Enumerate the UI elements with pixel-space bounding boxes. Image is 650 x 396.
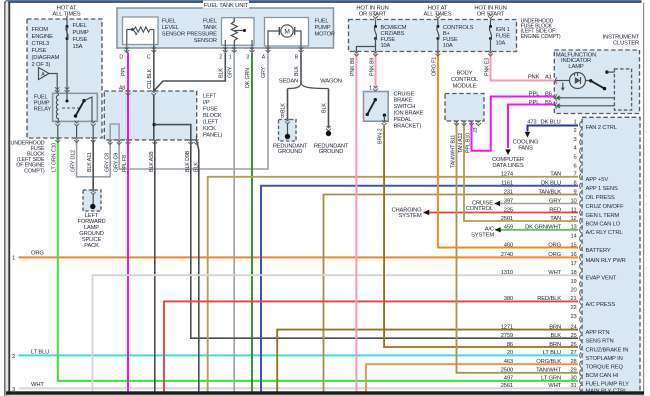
relay dashed link: [62, 107, 79, 109]
wire triangle A to relay coil: [49, 74, 57, 94]
svg-text:LEVEL: LEVEL: [162, 25, 179, 31]
svg-text:BLK: BLK: [219, 68, 225, 78]
svg-text:PNK B6: PNK B6: [350, 58, 356, 76]
svg-text:STOPLAMP IN: STOPLAMP IN: [586, 356, 623, 362]
fuel pump relay box: [53, 93, 98, 121]
svg-text:TAN: TAN: [550, 216, 561, 222]
svg-text:PRESSURE: PRESSURE: [187, 32, 217, 38]
relay switch contact wire: [84, 97, 92, 121]
sedan BLK wire: [287, 89, 289, 120]
fuel tank pressure sensor inner box: [222, 18, 255, 46]
svg-text:BRN: BRN: [549, 342, 561, 348]
svg-text:CONTROL: CONTROL: [466, 206, 494, 212]
svg-text:PUMP: PUMP: [34, 101, 50, 107]
wire PNK E3 to cluster A1: [491, 52, 555, 81]
svg-text:CTRL3: CTRL3: [32, 41, 50, 47]
svg-text:ORG: ORG: [548, 252, 561, 258]
svg-text:WHT: WHT: [31, 382, 44, 388]
cruise switch contacts: [366, 113, 369, 116]
cruise switch pin chevron top: [373, 86, 378, 91]
svg-text:8: 8: [573, 181, 576, 187]
wire BLK relay A11 to ground splice: [92, 140, 94, 191]
relay pin chevrons top: [55, 87, 60, 92]
MIL switch: [589, 79, 592, 82]
wagon BLK wire: [328, 89, 330, 128]
svg-text:86: 86: [507, 342, 513, 348]
PCM connector pins, numbers and labels: [580, 121, 581, 127]
svg-text:1310: 1310: [501, 270, 513, 276]
svg-text:2759: 2759: [501, 333, 513, 339]
wire BRN 1271 pin 24: [277, 330, 578, 392]
svg-text:FUEL: FUEL: [73, 23, 88, 29]
svg-text:463: 463: [504, 359, 513, 365]
svg-text:1274: 1274: [501, 172, 514, 178]
svg-text:PPL: PPL: [121, 66, 127, 76]
svg-text:LT GRN C10: LT GRN C10: [52, 143, 58, 172]
svg-text:15: 15: [570, 242, 576, 248]
svg-text:BCM/ECM: BCM/ECM: [381, 25, 407, 31]
svg-text:PNK E3: PNK E3: [484, 58, 490, 76]
svg-text:FANS: FANS: [518, 145, 533, 151]
svg-text:PNK B9: PNK B9: [369, 58, 375, 76]
label fuel tank unit: [203, 1, 249, 9]
wire TAN 2501 pin 12 from BCM A12: [464, 122, 578, 222]
svg-text:BLK: BLK: [294, 66, 300, 76]
svg-text:397: 397: [504, 198, 513, 204]
svg-text:473: 473: [527, 119, 536, 125]
svg-text:BRN: BRN: [549, 324, 561, 330]
fuel level sensor inner box: [123, 17, 159, 45]
svg-text:B+: B+: [443, 31, 451, 37]
svg-text:2740: 2740: [501, 252, 513, 258]
svg-text:14: 14: [570, 233, 576, 239]
svg-text:MODULE: MODULE: [453, 83, 477, 89]
fuse FUEL PUMP FUSE 15A symbol: [66, 25, 69, 28]
svg-text:C11 BLK: C11 BLK: [147, 68, 153, 89]
svg-text:OR START: OR START: [359, 12, 387, 18]
wire PNK B6 down: [355, 52, 357, 392]
svg-text:TANK: TANK: [203, 25, 218, 31]
svg-text:TAN/BLK: TAN/BLK: [538, 189, 561, 195]
svg-text:INSTRUMENT: INSTRUMENT: [603, 34, 640, 40]
svg-text:10A: 10A: [496, 40, 506, 46]
svg-text:A8: A8: [119, 86, 125, 92]
svg-text:1: 1: [573, 119, 576, 125]
svg-text:31: 31: [570, 383, 576, 389]
wire PPL fuel level sensor D to A8/F8 and down: [127, 53, 129, 392]
svg-text:EVAP VENT: EVAP VENT: [586, 276, 617, 282]
wire DK GRN/WHT 459 pin 13: [495, 229, 578, 231]
svg-text:ALL TIMES: ALL TIMES: [424, 12, 452, 18]
svg-text:1: 1: [12, 255, 15, 261]
svg-text:CRUISE: CRUISE: [394, 91, 415, 97]
body control module dashed box: [445, 94, 484, 122]
svg-text:GRY C9: GRY C9: [113, 153, 119, 172]
svg-text:SENSOR: SENSOR: [162, 32, 185, 38]
svg-text:GRY D12: GRY D12: [70, 150, 76, 172]
svg-text:BLK: BLK: [281, 103, 287, 113]
svg-text:11: 11: [571, 207, 577, 213]
svg-text:5: 5: [573, 155, 576, 161]
svg-text:GROUND: GROUND: [278, 149, 302, 155]
svg-text:APP +5V: APP +5V: [586, 177, 609, 183]
svg-text:9: 9: [573, 189, 576, 195]
svg-text:1: 1: [229, 55, 232, 61]
svg-text:28: 28: [570, 359, 576, 365]
svg-text:FUSE: FUSE: [203, 106, 218, 112]
svg-text:BLK: BLK: [322, 103, 328, 113]
svg-text:C: C: [147, 55, 151, 61]
wire ORG/BLK 463 pin 28: [366, 364, 578, 391]
svg-text:13: 13: [570, 225, 576, 231]
svg-text:SENS RTN: SENS RTN: [586, 339, 614, 345]
svg-text:231: 231: [504, 189, 513, 195]
cluster pin B6 bracket: [555, 94, 556, 100]
svg-text:LT BLU: LT BLU: [31, 349, 49, 355]
fuse branch to pin B6: [356, 44, 375, 52]
svg-text:WHT: WHT: [548, 270, 561, 276]
svg-text:TAN/WHT B11: TAN/WHT B11: [451, 135, 457, 168]
svg-text:SYSTEM: SYSTEM: [399, 213, 422, 219]
left page border lines: [4, 2, 5, 396]
svg-text:6: 6: [573, 163, 576, 169]
svg-text:PANEL): PANEL): [203, 132, 222, 138]
wire WHT 2561 (net 3 to pin 31): [19, 387, 579, 389]
MIL test stub: [562, 83, 564, 89]
wire GRY relay D12 to C8: [77, 140, 111, 177]
instrument cluster inner dashed rect: [614, 69, 631, 110]
svg-text:24: 24: [570, 324, 576, 330]
svg-text:PUMP: PUMP: [315, 25, 331, 31]
wire LT GRN 497 (relay C10 to pin 30): [58, 139, 578, 381]
svg-text:TAN: TAN: [550, 172, 561, 178]
svg-text:460: 460: [504, 242, 513, 248]
svg-text:BLK A11: BLK A11: [87, 152, 93, 172]
svg-text:27: 27: [570, 350, 576, 356]
svg-text:GRY: GRY: [549, 198, 561, 204]
wire RED 225 pin 11: [424, 212, 579, 214]
redundant ground wagon symbol: [326, 126, 331, 131]
bottom cutoff band: [6, 391, 644, 395]
svg-text:26: 26: [570, 342, 576, 348]
svg-text:BCM CAN LO: BCM CAN LO: [586, 221, 621, 227]
svg-text:(LEFT: (LEFT: [203, 119, 219, 125]
relay pin chevrons bottom: [55, 121, 60, 126]
svg-text:BRN: BRN: [377, 133, 383, 144]
fuel level sensor resistor: [127, 29, 133, 31]
fuel pump motor symbol: [281, 25, 293, 37]
svg-text:OIL PRESS: OIL PRESS: [586, 195, 615, 201]
svg-text:2561: 2561: [501, 383, 513, 389]
underhood fuse block (left) dashed box: [27, 19, 102, 138]
arrow cruise control wire 397: [495, 201, 501, 206]
svg-text:FUSE: FUSE: [32, 48, 47, 54]
svg-text:380: 380: [504, 296, 513, 302]
svg-text:RED: RED: [549, 207, 561, 213]
wire TAN 1274 pin 7: [208, 177, 578, 392]
wire TAN/WHT 2500 pin 29 from BCM B11: [457, 122, 579, 373]
svg-text:RED/BLK: RED/BLK: [537, 296, 561, 302]
arrow computer data lines: [505, 149, 510, 155]
svg-text:A/C PRESS: A/C PRESS: [586, 302, 616, 308]
svg-text:BLOCK: BLOCK: [203, 113, 222, 119]
wire BRN 86 pin 26 from cruise switch: [384, 126, 578, 347]
svg-text:PUMP: PUMP: [73, 30, 89, 36]
svg-text:LT BLU: LT BLU: [543, 350, 561, 356]
wire ORG 2740 (net 1 to pin 16): [19, 256, 579, 258]
svg-text:APP RTN: APP RTN: [586, 330, 610, 336]
wire ORG 460 pin 15 from fuse F1: [438, 52, 578, 248]
svg-text:FUSE: FUSE: [443, 37, 458, 43]
arrow a/c system wire 459: [495, 227, 501, 232]
wire WHT 1310 pin 18: [93, 275, 579, 391]
svg-text:GRY: GRY: [227, 66, 233, 78]
wire BLK A5B down: [154, 140, 156, 392]
svg-text:25: 25: [570, 333, 576, 339]
svg-text:FUSE: FUSE: [73, 37, 88, 43]
wire TAN/BLK 231 pin 9: [324, 195, 579, 392]
svg-text:BLK A5B: BLK A5B: [149, 151, 155, 172]
svg-text:10A: 10A: [443, 43, 453, 49]
svg-text:ORG F1: ORG F1: [432, 57, 438, 76]
svg-text:LEFT: LEFT: [203, 93, 217, 99]
svg-text:459: 459: [504, 225, 513, 231]
svg-text:4: 4: [573, 146, 576, 152]
wire PNK B9 to cruise switch: [375, 52, 377, 89]
wire BLK tank pin2 to C11: [154, 53, 226, 91]
svg-text:10A: 10A: [381, 43, 391, 49]
svg-text:FUEL: FUEL: [315, 18, 329, 24]
svg-text:CRUZ/BRAKE IN: CRUZ/BRAKE IN: [586, 347, 629, 353]
svg-text:PACK: PACK: [84, 243, 99, 249]
svg-text:FUSE: FUSE: [496, 34, 511, 40]
ground splice pin chevron: [91, 189, 96, 194]
fuse IGN 1 10A: [490, 20, 492, 27]
relay switch arm: [76, 101, 85, 116]
svg-text:(ON BRAKE: (ON BRAKE: [394, 111, 424, 117]
svg-text:2501: 2501: [501, 216, 513, 222]
svg-text:DK GRN/WHT: DK GRN/WHT: [525, 225, 561, 231]
svg-text:DK BLU: DK BLU: [541, 181, 561, 187]
svg-text:SWITCH: SWITCH: [394, 104, 416, 110]
svg-text:3: 3: [246, 55, 249, 61]
svg-text:10: 10: [570, 198, 576, 204]
svg-text:ENGINE COMPT): ENGINE COMPT): [521, 34, 561, 40]
svg-text:FUEL: FUEL: [162, 18, 176, 24]
svg-text:BODY: BODY: [457, 71, 473, 77]
fuse box bottom pin chevrons: [55, 137, 60, 142]
ground splice dashed box: [83, 190, 101, 211]
instrument cluster dashed box: [554, 50, 639, 114]
wire DK BLU 1161 pin 8: [261, 186, 578, 392]
svg-text:BLK D9B: BLK D9B: [185, 150, 191, 172]
relay wires to box bottom: [57, 121, 59, 139]
underhood fuse block (top) dashed box: [349, 20, 517, 52]
svg-text:WHT: WHT: [548, 383, 561, 389]
svg-text:SEDAN: SEDAN: [279, 78, 298, 84]
svg-text:12: 12: [570, 216, 576, 222]
cluster B6 internal wire: [557, 96, 562, 100]
svg-text:20: 20: [507, 350, 513, 356]
fuel tank pressure sensor resistor: [231, 22, 237, 41]
svg-text:FUEL TANK UNIT: FUEL TANK UNIT: [204, 3, 249, 9]
cruise brake switch box: [364, 92, 389, 122]
svg-text:1271: 1271: [501, 324, 513, 330]
I/P block top pin chevrons: [126, 90, 131, 95]
svg-text:LAMP: LAMP: [568, 64, 583, 70]
ground splice wire and dot: [92, 195, 94, 207]
svg-text:DK GRN: DK GRN: [245, 68, 251, 88]
relay coil: [56, 95, 58, 118]
svg-text:FUEL PUMP RLY: FUEL PUMP RLY: [586, 381, 630, 387]
svg-text:BLK: BLK: [193, 162, 199, 172]
svg-text:KICK: KICK: [203, 126, 216, 132]
svg-text:DK BLU: DK BLU: [540, 119, 560, 125]
cruise switch pin chevron bottom: [382, 120, 387, 125]
svg-text:GROUND: GROUND: [319, 149, 343, 155]
svg-text:TAN A12: TAN A12: [458, 133, 464, 153]
svg-text:TAN/WHT: TAN/WHT: [536, 368, 562, 374]
wire GRY tank pin1 down: [233, 53, 235, 392]
svg-text:FUSE: FUSE: [381, 37, 396, 43]
svg-text:SENSOR: SENSOR: [194, 38, 217, 44]
svg-text:CRZ/ABS: CRZ/ABS: [381, 31, 405, 37]
svg-text:APP 1 SENS: APP 1 SENS: [586, 186, 619, 192]
BCM pin stubs: [456, 121, 458, 124]
fuse CONTROLS B+ 10A: [437, 20, 439, 27]
triangle connector A: [39, 68, 50, 80]
svg-text:19: 19: [570, 279, 576, 285]
svg-text:3: 3: [573, 137, 576, 143]
wire PPL BCM B10 to cluster B6: [472, 97, 555, 151]
fuse strip bottom chevrons: [354, 51, 359, 56]
svg-text:FUEL: FUEL: [34, 94, 48, 100]
svg-text:A/C RLY CTRL: A/C RLY CTRL: [586, 230, 624, 236]
relay pin stubs: [57, 126, 59, 138]
svg-text:WAGON: WAGON: [320, 78, 342, 84]
svg-text:CLUSTER: CLUSTER: [613, 40, 639, 46]
wire PPL cluster B5 to computer data lines: [508, 105, 554, 149]
fuse BCM/ECM CRZ/ABS 10A: [375, 20, 377, 27]
svg-text:PPL F8: PPL F8: [122, 155, 128, 172]
svg-text:2 OF 3): 2 OF 3): [32, 62, 51, 68]
I/P block bottom pin chevrons: [108, 139, 113, 144]
svg-text:PEDAL: PEDAL: [394, 117, 412, 123]
svg-text:CRUZ ON/OFF: CRUZ ON/OFF: [586, 204, 625, 210]
svg-text:ORG: ORG: [31, 251, 44, 257]
svg-text:DATA LINES: DATA LINES: [492, 163, 523, 169]
svg-text:CONTROLS: CONTROLS: [443, 25, 474, 31]
svg-text:LT GRN: LT GRN: [541, 376, 561, 382]
svg-text:21: 21: [570, 296, 576, 302]
arrow charging system wire 225: [424, 210, 430, 215]
svg-text:16: 16: [570, 252, 576, 258]
svg-text:15A: 15A: [73, 44, 83, 50]
arrow cooling fans: [525, 132, 530, 138]
BCM pin chevrons: [454, 120, 459, 125]
svg-text:29: 29: [570, 368, 576, 374]
svg-text:RELAY: RELAY: [34, 107, 52, 113]
svg-text:18: 18: [570, 270, 576, 276]
svg-text:A1: A1: [545, 75, 552, 81]
svg-text:SYSTEM: SYSTEM: [471, 233, 494, 239]
svg-text:ORG: ORG: [548, 242, 561, 248]
svg-text:1: 1: [369, 86, 372, 92]
svg-text:17: 17: [570, 261, 576, 267]
svg-text:CONTROL: CONTROL: [451, 77, 479, 83]
svg-text:23: 23: [570, 314, 576, 320]
svg-text:FROM: FROM: [32, 27, 49, 33]
PCM connector dashed box: [582, 117, 640, 396]
I/P block extra BLK pin stub: [196, 136, 198, 140]
svg-text:20: 20: [570, 288, 576, 294]
MIL lamp symbol: [556, 80, 570, 82]
svg-text:BATTERY: BATTERY: [586, 248, 611, 254]
svg-text:497: 497: [504, 376, 513, 382]
I/P block C11 junction: [153, 95, 155, 140]
svg-text:PPL: PPL: [529, 100, 540, 106]
fuel pump motor inner box: [265, 18, 309, 47]
svg-text:A: A: [41, 72, 45, 78]
svg-text:GRY: GRY: [261, 66, 267, 78]
left I/P fuse block dashed box: [104, 91, 196, 140]
svg-text:1161: 1161: [501, 181, 513, 187]
svg-text:PNK: PNK: [528, 75, 540, 81]
sedan/wagon split: [300, 53, 302, 84]
svg-text:FAN 2 CTRL: FAN 2 CTRL: [586, 125, 618, 131]
svg-text:BCM CAN HI: BCM CAN HI: [586, 373, 619, 379]
svg-text:GRY C8: GRY C8: [104, 153, 110, 172]
fuel tank unit pin chevrons: [124, 47, 129, 52]
redundant ground sedan dashed box: [279, 120, 297, 142]
svg-text:225: 225: [504, 207, 513, 213]
I/P block C8-C9 loop: [110, 124, 119, 140]
redundant ground sedan symbol: [285, 119, 290, 124]
svg-text:BRAKE: BRAKE: [394, 98, 413, 104]
wire BLK fuel level sensor C to C11: [153, 45, 155, 92]
svg-text:2500: 2500: [501, 368, 513, 374]
svg-text:22: 22: [570, 305, 576, 311]
svg-text:ORG/BLK: ORG/BLK: [536, 359, 561, 365]
wire LT BLU 20 (net 2 to pin 27): [19, 354, 579, 356]
wire DK BLU 473 cluster pin1 to cooling fans: [528, 126, 579, 132]
svg-text:PPL B10: PPL B10: [466, 133, 472, 153]
svg-text:2: 2: [219, 55, 222, 61]
wire RED/BLK 380 pin 21: [164, 301, 578, 391]
right page border line: [643, 3, 644, 396]
wire DK GRN tank pin3 down: [251, 53, 253, 392]
cluster pin B5 bracket: [555, 102, 556, 108]
svg-text:BRACKET): BRACKET): [394, 123, 422, 129]
svg-text:IGN 1: IGN 1: [496, 27, 510, 33]
svg-text:30: 30: [570, 376, 576, 382]
svg-text:I/P: I/P: [203, 100, 210, 106]
svg-text:ENGINE: ENGINE: [32, 34, 54, 40]
svg-text:J3: J3: [473, 127, 479, 133]
svg-text:M: M: [284, 28, 289, 35]
svg-text:MAIN RLY PWR: MAIN RLY PWR: [586, 258, 626, 264]
svg-text:B6: B6: [545, 92, 552, 98]
svg-text:D: D: [119, 55, 123, 61]
wire BLK extra down: [197, 140, 199, 392]
cluster B5 internal wire: [557, 104, 562, 108]
svg-text:B5: B5: [545, 100, 552, 106]
wire BLK D9B 2759 to pin 25: [191, 140, 578, 338]
svg-text:MOTOR: MOTOR: [315, 32, 335, 38]
cluster pin A1 bracket: [555, 77, 556, 83]
wire GRY 397 pin 10: [495, 203, 579, 205]
svg-text:BLK: BLK: [550, 333, 561, 339]
